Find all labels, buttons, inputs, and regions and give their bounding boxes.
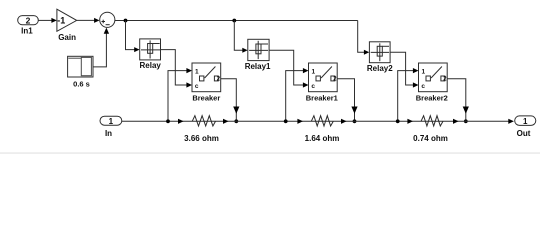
svg-text:c: c (421, 83, 425, 90)
svg-text:Gain: Gain (58, 33, 76, 42)
svg-text:3.66 ohm: 3.66 ohm (184, 134, 219, 143)
node tap junction stage 1 (166, 119, 170, 123)
svg-text:In1: In1 (21, 26, 33, 35)
resistor R2 1.64 ohm (305, 116, 340, 143)
breaker block Breaker1 (306, 63, 338, 102)
gain block Gain (-1) (57, 9, 77, 42)
wire bottom tap to Breaker2 port 1 (398, 68, 419, 121)
wire Gain to Sum (77, 18, 100, 23)
svg-text:1.64 ohm: 1.64 ohm (305, 134, 340, 143)
wire Breaker2 output drop to bottom rail (447, 79, 469, 122)
wire arrow out of resistor R1 (223, 119, 229, 124)
svg-text:1: 1 (109, 117, 114, 126)
svg-text:1: 1 (523, 117, 528, 126)
node tap junction stage 3 (396, 119, 400, 123)
svg-text:c: c (195, 83, 199, 90)
wire Breaker output drop to bottom rail (221, 79, 240, 122)
wire step to sum bottom (93, 28, 109, 67)
wire arrow out of resistor R3 (453, 119, 459, 124)
input port In1 (18, 15, 39, 35)
wire Relay2 output to Breaker2 port c (390, 52, 418, 87)
svg-text:Out: Out (517, 129, 531, 138)
svg-text:c: c (311, 83, 315, 90)
svg-text:0.74 ohm: 0.74 ohm (413, 134, 448, 143)
svg-text:Breaker1: Breaker1 (306, 93, 338, 102)
sum block (+ -) (100, 12, 115, 27)
wire rail drop to Relay (126, 21, 140, 53)
svg-text:-1: -1 (57, 16, 65, 26)
node junction Breaker2 out (464, 119, 468, 123)
node junction Breaker1 out (353, 119, 357, 123)
relay block Relay1 (245, 39, 271, 71)
node rail junction 1 (124, 19, 128, 23)
wire In1 to Gain (38, 18, 57, 23)
node tap junction stage 2 (284, 119, 288, 123)
wire sum output top rail (115, 20, 358, 22)
node rail junction 2 (232, 19, 236, 23)
output port Out (515, 116, 536, 138)
wire arrow into Out port (508, 119, 514, 124)
resistor R3 0.74 ohm (413, 116, 448, 143)
svg-text:1: 1 (421, 69, 425, 76)
breaker block Breaker (192, 63, 221, 102)
relay block Relay2 (367, 42, 393, 73)
resistor R1 3.66 ohm (184, 116, 219, 143)
wire rail drop to Relay1 (234, 21, 247, 53)
wire bottom rail (122, 120, 510, 122)
svg-text:Relay1: Relay1 (245, 62, 271, 71)
wire bottom tap to Breaker1 port 1 (286, 68, 309, 121)
wire bottom tap to Breaker port 1 (168, 68, 192, 121)
svg-text:Relay2: Relay2 (367, 64, 393, 73)
wire rail drop to Relay2 (358, 21, 370, 55)
step source block 0.6 s (68, 56, 93, 88)
svg-text:0.6 s: 0.6 s (73, 80, 90, 89)
wire arrow into resistor R1 (178, 119, 184, 124)
svg-text:Breaker2: Breaker2 (416, 93, 448, 102)
wire arrow out of resistor R2 (341, 119, 347, 124)
svg-text:Relay: Relay (140, 61, 162, 70)
wire arrow into resistor R3 (407, 119, 413, 124)
svg-text:1: 1 (311, 69, 315, 76)
wire Relay1 output to Breaker1 port c (269, 50, 308, 87)
svg-text:In: In (105, 129, 112, 138)
svg-text:2: 2 (26, 15, 31, 25)
svg-text:Breaker: Breaker (192, 93, 220, 102)
relay block Relay (140, 39, 162, 70)
wire Relay output to Breaker port c (161, 50, 193, 88)
breaker block Breaker2 (416, 63, 448, 102)
node junction Breaker out (234, 119, 238, 123)
input port In (100, 116, 122, 138)
svg-text:1: 1 (195, 69, 199, 76)
wire arrow into resistor R2 (297, 119, 303, 124)
faint window artifact line (0, 152, 540, 154)
wire Breaker1 output drop to bottom rail (337, 79, 357, 122)
